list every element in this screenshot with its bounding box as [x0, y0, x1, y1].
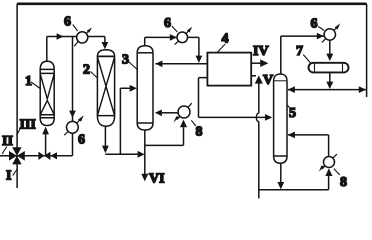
svg-text:8: 8 [196, 125, 203, 140]
column K2 [97, 50, 114, 127]
wire riser to column 3 feed [120, 88, 129, 154]
wire drum bottoms [329, 73, 331, 82]
svg-text:6: 6 [78, 133, 85, 148]
wire E2 outlet down [188, 37, 199, 56]
wire column1 overhead [47, 37, 77, 62]
svg-text:II: II [2, 134, 13, 149]
recycle top line [17, 2, 367, 5]
svg-text:7: 7 [296, 44, 303, 59]
heat-exchanger E1 (6) [77, 32, 88, 43]
wire column5 bottoms [280, 163, 282, 182]
wire stream IV [251, 62, 261, 64]
svg-text:I: I [6, 169, 11, 184]
svg-text:3: 3 [122, 53, 129, 68]
cooler E3 (6) on quench loop [67, 121, 79, 133]
svg-text:VI: VI [149, 172, 165, 187]
wire column3 bottoms to VI [144, 130, 146, 174]
pump P2 (8) [324, 157, 335, 168]
wire right riser [366, 4, 368, 97]
column K3 [137, 46, 153, 130]
valve gate V2 [38, 152, 57, 160]
drum 7 [309, 63, 349, 73]
heat-exchanger E4 (6) [324, 29, 335, 40]
wire stream I stub [16, 156, 18, 188]
svg-text:8: 8 [340, 175, 347, 190]
wire main feed line [0, 155, 73, 157]
wire E1 to column 2 [88, 37, 105, 44]
wire riser to column 1 bottom [45, 134, 47, 156]
wire branch down to cooler [72, 37, 74, 122]
svg-text:1: 1 [25, 74, 32, 89]
wire column2 bottoms [104, 126, 106, 146]
svg-text:IV: IV [253, 44, 269, 59]
wire reflux line into K3 [155, 63, 207, 65]
wire left recycle riser [16, 4, 18, 149]
wire E4 to drum [329, 40, 331, 54]
wire gas return line [288, 89, 367, 91]
valve cross at feed mix [9, 147, 25, 164]
wire column5 overhead [281, 36, 324, 74]
apparatus 4 box [207, 53, 251, 86]
pump P1 (8) [178, 106, 190, 118]
svg-text:4: 4 [222, 32, 229, 47]
column K1 [40, 61, 54, 125]
svg-text:V: V [263, 73, 273, 88]
svg-text:III: III [20, 118, 36, 133]
heat-exchanger E2 (6) [177, 32, 188, 43]
column K5 [274, 74, 287, 163]
svg-text:6: 6 [311, 17, 318, 32]
svg-text:6: 6 [64, 15, 71, 30]
wire bottoms product line [259, 189, 329, 191]
wire box4 bottom outlet to column 5 [199, 78, 266, 118]
wire stream V riser [251, 75, 256, 77]
svg-text:2: 2 [83, 63, 90, 78]
wire column3 overhead [145, 37, 177, 45]
svg-text:6: 6 [164, 16, 171, 31]
